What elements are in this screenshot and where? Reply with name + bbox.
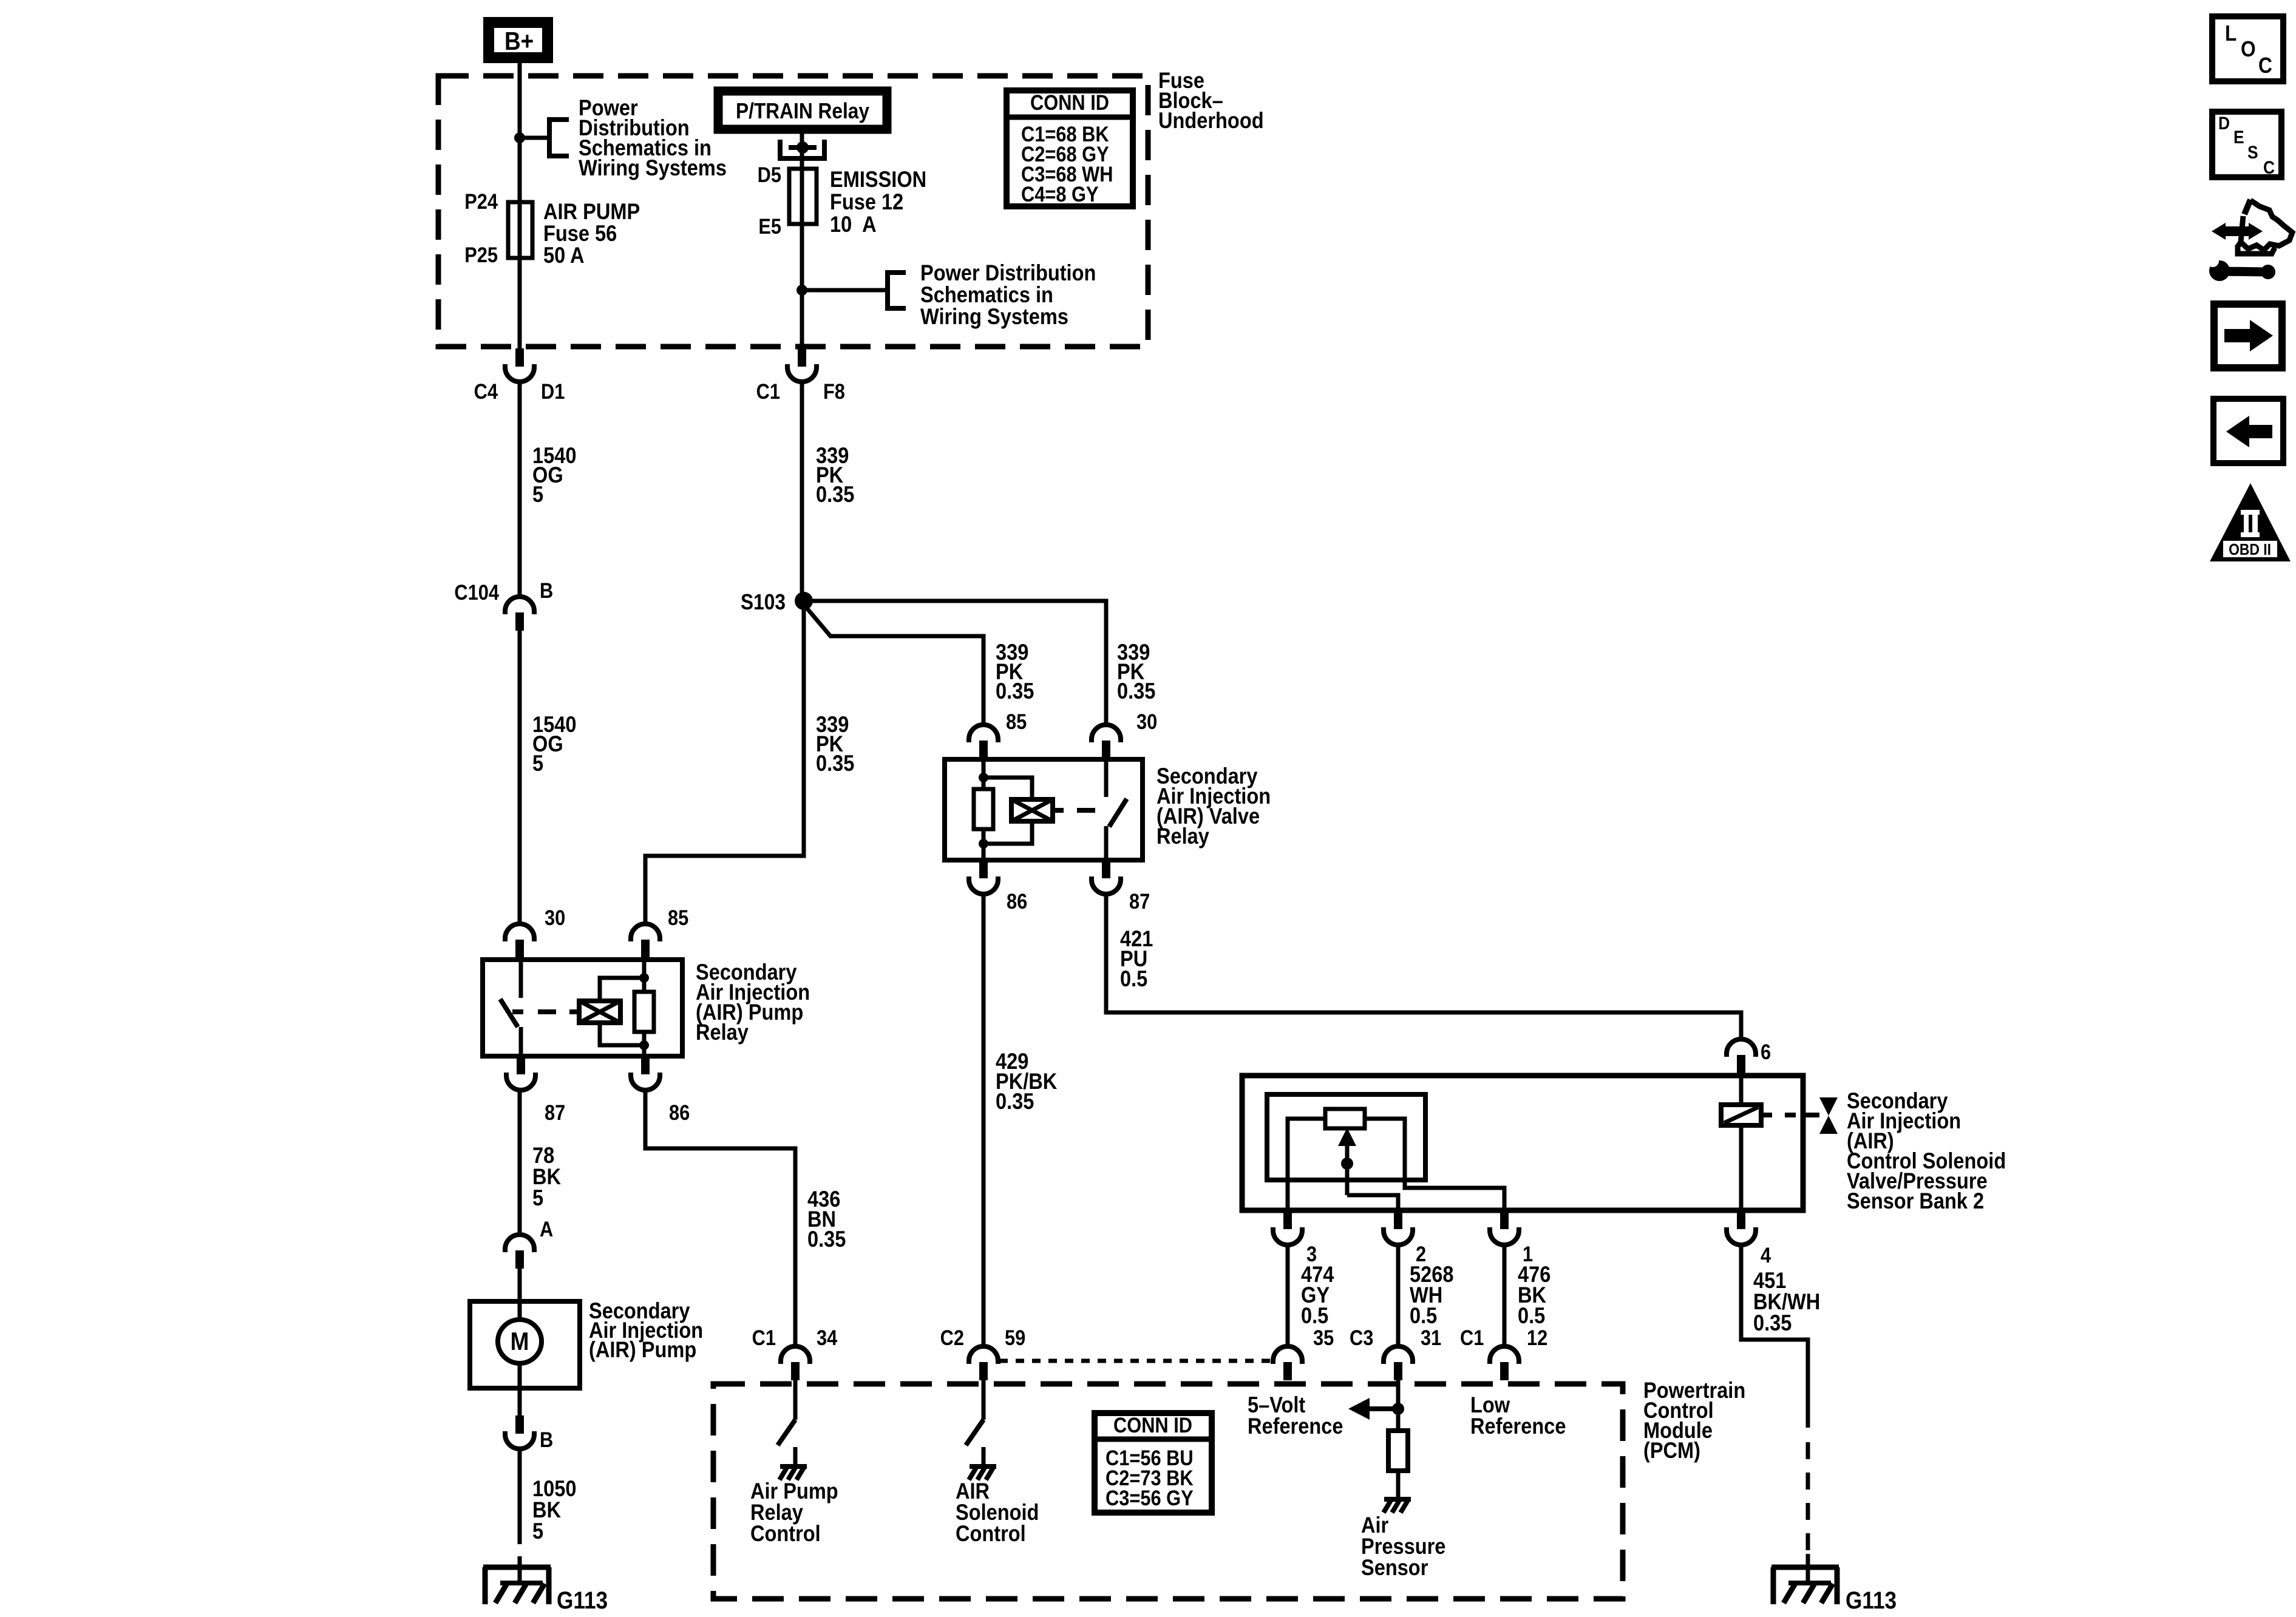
svg-text:87: 87 — [545, 1100, 565, 1124]
svg-text:S: S — [2247, 141, 2258, 162]
valve relay coil lead top — [982, 759, 986, 789]
valve relay solenoid loop — [983, 778, 1032, 799]
svg-text:35: 35 — [1313, 1326, 1334, 1349]
wire into pump — [518, 1269, 522, 1301]
ground G113 right — [1771, 1565, 1839, 1570]
sensor pot right lead — [1365, 1119, 1504, 1210]
reference bracket 1 — [520, 136, 549, 140]
wire sensor pin3 to PCM — [1286, 1244, 1290, 1346]
svg-text:34: 34 — [817, 1326, 838, 1349]
PCM 5-volt arrow — [1368, 1406, 1398, 1411]
P/TRAIN Relay box — [718, 91, 887, 129]
connector pump relay pin 87 — [517, 1056, 525, 1074]
svg-text:M: M — [511, 1327, 529, 1356]
wire 339 PK from F8 — [800, 381, 804, 601]
svg-text:C4: C4 — [474, 379, 498, 403]
PCM dashed border — [713, 1384, 1623, 1599]
svg-text:C1: C1 — [752, 1326, 776, 1349]
wire 436 BN — [645, 1089, 795, 1346]
svg-text:C1: C1 — [756, 379, 780, 403]
connector sensor pin 2 — [1394, 1211, 1402, 1229]
svg-text:O: O — [2241, 37, 2256, 61]
connector valve relay pin 87 — [1102, 860, 1110, 878]
icon OBD II triangle — [2210, 483, 2291, 561]
svg-text:4: 4 — [1761, 1243, 1771, 1267]
svg-text:30: 30 — [545, 906, 565, 929]
wire sensor pin2 to PCM — [1396, 1244, 1401, 1346]
fuse F12 EMISSION — [789, 169, 817, 224]
wire S103 down to pump relay 85 — [645, 601, 804, 925]
pump relay actuator dashes — [512, 1009, 523, 1014]
svg-text:E: E — [2233, 126, 2244, 147]
svg-text:G113: G113 — [557, 1587, 608, 1614]
AIR pump relay box — [483, 960, 682, 1056]
svg-text:0.35: 0.35 — [816, 482, 854, 507]
AIR valve relay box — [945, 759, 1143, 860]
svg-text:0.35: 0.35 — [816, 751, 854, 776]
svg-text:D: D — [2218, 112, 2230, 133]
PCM ground air pump — [793, 1447, 798, 1465]
pump relay coil — [634, 992, 654, 1032]
valve relay coil lead bottom — [982, 829, 986, 860]
wire S103 to valve relay 30 — [804, 601, 1106, 725]
valve relay coil — [974, 789, 993, 829]
svg-text:C3=56 GY: C3=56 GY — [1106, 1486, 1194, 1510]
svg-text:B+: B+ — [504, 27, 534, 56]
svg-text:5: 5 — [532, 1185, 543, 1210]
wire P/TRAIN relay to fuse 12 — [800, 129, 804, 348]
connector solenoid pin 4 — [1737, 1211, 1745, 1229]
svg-text:Relay: Relay — [1156, 824, 1209, 849]
connector C2 pin 59 — [969, 1346, 998, 1364]
valve relay switch — [1104, 759, 1109, 797]
fuse block dashed border — [438, 76, 1148, 347]
connector pump pin B — [518, 1388, 522, 1415]
svg-text:A: A — [540, 1217, 553, 1241]
connector solenoid pin 6 — [1727, 1039, 1756, 1057]
svg-text:C1: C1 — [1460, 1326, 1484, 1349]
AIR pump motor box — [470, 1301, 580, 1388]
svg-text:85: 85 — [668, 906, 688, 929]
junction dot on AIR PUMP feed — [514, 132, 525, 143]
svg-text:Relay: Relay — [696, 1020, 749, 1045]
connector pump relay pin 30 — [505, 924, 534, 941]
svg-text:5: 5 — [532, 482, 543, 507]
svg-text:G113: G113 — [1846, 1587, 1897, 1614]
connector sensor pin 3 — [1283, 1211, 1292, 1229]
pump relay solenoid loop — [600, 978, 644, 1001]
svg-text:L: L — [2225, 21, 2237, 46]
wire 421 PU — [1106, 893, 1741, 1039]
icon jump double arrow — [2223, 226, 2252, 236]
PCM ground AIR solenoid — [982, 1447, 986, 1465]
svg-text:Reference: Reference — [1248, 1414, 1343, 1439]
wire 451 BK/WH — [1741, 1244, 1808, 1428]
connector C3 pin 35 — [1273, 1346, 1302, 1364]
svg-text:Fuse 12: Fuse 12 — [830, 189, 903, 214]
svg-text:5: 5 — [532, 1519, 543, 1544]
svg-text:(AIR) Pump: (AIR) Pump — [589, 1337, 696, 1362]
icon DESC box — [2212, 112, 2281, 177]
connector C1 pin 34 — [781, 1346, 810, 1364]
svg-text:OBD II: OBD II — [2229, 541, 2271, 559]
icon back arrow box — [2213, 399, 2283, 463]
wire B+ to fuse block — [518, 63, 522, 348]
solenoid coil — [1721, 1105, 1761, 1125]
solenoid-sensor box — [1242, 1076, 1803, 1210]
PCM driver switch air pump — [793, 1380, 798, 1420]
svg-text:31: 31 — [1421, 1326, 1441, 1349]
svg-text:D1: D1 — [541, 379, 565, 403]
icon LOC box — [2212, 16, 2283, 81]
solenoid valve symbol — [1819, 1097, 1838, 1116]
PCM ground air pressure — [1384, 1497, 1411, 1502]
wire 429 PK/BK — [982, 893, 986, 1346]
connector pump relay pin 86 — [641, 1056, 650, 1074]
svg-text:0.5: 0.5 — [1518, 1303, 1545, 1328]
svg-text:87: 87 — [1129, 889, 1150, 913]
wire 1050 BK — [518, 1448, 522, 1544]
svg-text:30: 30 — [1136, 710, 1157, 733]
svg-text:D5: D5 — [758, 163, 781, 186]
wire S103 to valve relay 85 — [804, 605, 983, 725]
svg-text:12: 12 — [1527, 1326, 1547, 1349]
svg-text:EMISSION: EMISSION — [830, 167, 926, 192]
wire 451 dashed segment — [1806, 1442, 1810, 1553]
connector sensor pin 1 — [1500, 1211, 1509, 1229]
AIR pump motor M — [518, 1301, 522, 1320]
svg-text:86: 86 — [1007, 889, 1027, 913]
icon jump wrench — [2209, 260, 2230, 281]
connector C1 pin 31 — [1384, 1346, 1413, 1364]
power symbol B+ box — [489, 22, 548, 58]
svg-text:Underhood: Underhood — [1158, 108, 1264, 133]
CONN ID table bottom — [1095, 1413, 1212, 1513]
CONN ID table top — [1007, 90, 1133, 206]
svg-text:Control: Control — [956, 1521, 1026, 1546]
pressure sensor inner box — [1267, 1094, 1425, 1180]
pump relay coil lead top — [642, 960, 647, 992]
svg-text:Sensor: Sensor — [1361, 1555, 1428, 1580]
svg-text:0.35: 0.35 — [996, 1089, 1034, 1114]
wire sensor pin1 to PCM — [1503, 1244, 1507, 1346]
icon jump connector outline — [2244, 200, 2250, 214]
svg-text:Control: Control — [750, 1521, 821, 1546]
air pressure sensor resistor — [1388, 1431, 1408, 1471]
connector valve relay pin 86 — [979, 860, 988, 878]
svg-text:C2: C2 — [940, 1326, 964, 1349]
pump relay coil lead bottom — [642, 1032, 647, 1056]
connector pump relay pin 85 — [631, 924, 660, 941]
svg-text:Reference: Reference — [1470, 1414, 1566, 1439]
svg-text:0.35: 0.35 — [996, 679, 1034, 703]
valve relay solenoid X-box — [1011, 799, 1053, 821]
connector pump pin A — [505, 1235, 534, 1252]
wire stub to G113 — [518, 1556, 522, 1583]
svg-text:85: 85 — [1006, 710, 1027, 733]
svg-text:Wiring Systems: Wiring Systems — [920, 304, 1068, 329]
splice S103 — [795, 592, 813, 610]
svg-text:B: B — [540, 1428, 553, 1451]
wire pin31 to sensor resistor — [1396, 1380, 1401, 1431]
svg-text:P25: P25 — [464, 243, 498, 266]
svg-text:C4=8 GY: C4=8 GY — [1021, 182, 1099, 206]
svg-text:Sensor Bank 2: Sensor Bank 2 — [1847, 1188, 1984, 1213]
svg-text:S103: S103 — [741, 590, 786, 614]
PCM driver switch AIR solenoid — [982, 1380, 986, 1420]
sensor wiper arrow — [1338, 1128, 1356, 1146]
reference bracket 2 — [802, 288, 888, 293]
svg-text:F8: F8 — [823, 379, 845, 403]
svg-text:C104: C104 — [454, 580, 499, 604]
valve relay actuator dashes — [1053, 808, 1064, 813]
wire resistor to ground — [1396, 1471, 1401, 1498]
solenoid actuator dashes — [1761, 1113, 1772, 1117]
wire 1540 OG upper — [518, 381, 522, 597]
sensor pot resistor — [1325, 1109, 1365, 1128]
pump relay switch — [519, 960, 523, 998]
svg-text:CONN ID: CONN ID — [1030, 90, 1109, 114]
svg-text:E5: E5 — [758, 214, 781, 238]
svg-text:(PCM): (PCM) — [1643, 1438, 1700, 1463]
svg-text:0.35: 0.35 — [1117, 679, 1155, 703]
connector pin 12 — [1490, 1346, 1519, 1364]
svg-text:CONN ID: CONN ID — [1113, 1413, 1192, 1437]
junction dot on emission feed — [796, 285, 807, 296]
wire 78 BK — [518, 1089, 522, 1235]
svg-text:C: C — [2263, 157, 2275, 177]
svg-text:0.35: 0.35 — [1753, 1310, 1792, 1335]
connector C1 pin F8 — [798, 348, 806, 367]
sensor wiper lead — [1347, 1195, 1398, 1210]
svg-text:10 A: 10 A — [830, 212, 877, 237]
svg-text:P24: P24 — [464, 189, 498, 213]
connector valve relay pin 30 — [1092, 725, 1121, 742]
svg-text:C3: C3 — [1350, 1326, 1373, 1349]
icon forward arrow box — [2214, 304, 2282, 368]
svg-text:Wiring Systems: Wiring Systems — [579, 155, 727, 180]
connector valve relay pin 85 — [969, 725, 998, 742]
svg-text:P/TRAIN Relay: P/TRAIN Relay — [736, 99, 869, 123]
dotted line C2-59 to 35 — [999, 1359, 1273, 1363]
sensor pot left lead — [1288, 1119, 1325, 1210]
pump relay solenoid X-box — [579, 1001, 620, 1023]
svg-text:0.5: 0.5 — [1410, 1303, 1437, 1328]
solenoid coil lead — [1739, 1076, 1744, 1210]
svg-text:0.5: 0.5 — [1120, 966, 1147, 991]
svg-text:50 A: 50 A — [543, 243, 585, 268]
fuse F56 AIR PUMP — [508, 202, 532, 258]
connector C4 pin D1 — [515, 348, 524, 367]
fuse holder bracket — [780, 140, 824, 158]
svg-text:6: 6 — [1761, 1040, 1771, 1063]
wire stub to G113 right — [1806, 1554, 1810, 1583]
ground G113 left — [483, 1565, 551, 1570]
svg-text:59: 59 — [1005, 1326, 1025, 1349]
wire 1540 OG lower — [518, 631, 522, 926]
svg-text:86: 86 — [669, 1100, 690, 1124]
svg-text:B: B — [540, 578, 553, 602]
svg-text:0.5: 0.5 — [1301, 1303, 1328, 1328]
svg-text:0.35: 0.35 — [807, 1227, 846, 1252]
connector C104 pin B — [505, 597, 534, 614]
svg-text:5: 5 — [532, 751, 543, 776]
svg-text:C: C — [2258, 53, 2272, 78]
